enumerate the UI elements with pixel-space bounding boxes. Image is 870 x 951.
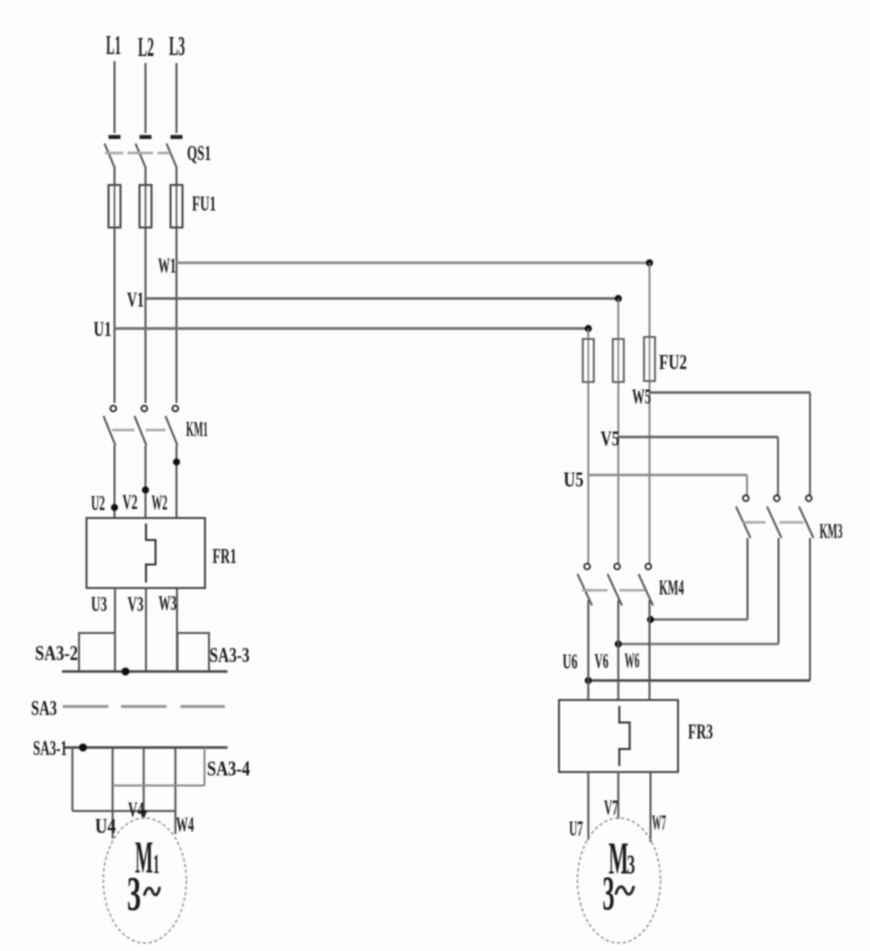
svg-text:W7: W7 (652, 811, 666, 835)
junction dot on V6 (615, 640, 622, 647)
svg-text:FU2: FU2 (659, 350, 687, 374)
svg-text:FU1: FU1 (192, 192, 216, 216)
wire L1 drop (114, 61, 116, 133)
wire KM3 pole1 to W6 (651, 618, 748, 620)
svg-text:V7: V7 (604, 796, 618, 820)
switch section SA3-4 bracket vertical (204, 748, 206, 786)
wire V5 horizontal (618, 436, 778, 438)
switch section SA3-3 box (178, 633, 210, 672)
junction dot V2 (142, 486, 149, 493)
svg-text:U4: U4 (95, 814, 116, 838)
wire W3 (176, 588, 178, 672)
svg-text:W3: W3 (159, 591, 177, 615)
svg-text:W4: W4 (176, 813, 194, 837)
svg-text:V5: V5 (601, 427, 620, 451)
fuse FU1 pole3 (171, 185, 183, 228)
wire KM1 pole1 to FR1 (114, 446, 116, 519)
wire V3 (145, 588, 147, 672)
junction dot U2 (111, 504, 118, 511)
thermal relay FR1 box (87, 518, 206, 588)
svg-text:FR3: FR3 (688, 720, 713, 744)
wire KM3 pole2 down (778, 538, 780, 644)
wire column U drop (587, 329, 589, 564)
switch section SA3-2 box (79, 633, 115, 672)
svg-text:SA3-4: SA3-4 (207, 757, 250, 781)
wire column V drop (617, 299, 619, 564)
svg-text:U7: U7 (569, 817, 583, 841)
wire W7 (650, 772, 652, 842)
wire L2 drop (145, 63, 147, 133)
contactor KM3 (736, 495, 814, 538)
contactor KM4 (578, 564, 654, 606)
fuse FU2 pole W (644, 337, 655, 381)
wire KM4 pole3 to FR3 (649, 600, 651, 700)
svg-text:FR1: FR1 (213, 544, 237, 568)
wire KM3 pole3 to U6 (588, 679, 810, 681)
svg-text:KM1: KM1 (186, 417, 208, 441)
svg-text:U6: U6 (563, 650, 578, 674)
switch QS1 (105, 137, 183, 169)
wire V4 drop with arrow (143, 748, 145, 813)
svg-text:U1: U1 (94, 317, 112, 341)
switch SA3 linkage dashes (63, 705, 225, 708)
junction dot W1 right (646, 259, 653, 266)
wire KM1 pole2 to FR1 (145, 446, 147, 519)
wire left bracket vertical (71, 748, 73, 812)
junction dot on common bus (122, 668, 130, 676)
svg-text:V2: V2 (123, 490, 138, 514)
junction dot W2 (173, 458, 180, 465)
wire V5 to KM3 pole2 (777, 437, 779, 496)
svg-text:L2: L2 (138, 32, 154, 62)
svg-text:SA3-1: SA3-1 (33, 736, 67, 760)
svg-text:KM3: KM3 (820, 519, 843, 543)
wire left bracket horizontal (72, 810, 175, 812)
junction dot V1 right (615, 295, 622, 302)
wire column W drop (649, 263, 651, 564)
wire U4 drop (112, 748, 114, 839)
svg-text:SA3-3: SA3-3 (210, 643, 250, 667)
wire QS1 to FU1 pole2 (145, 169, 147, 404)
svg-text:U3: U3 (91, 592, 107, 616)
fuse FU2 pole V (613, 339, 624, 382)
wire U3 (114, 588, 116, 672)
thermal relay FR3 heater element (619, 706, 629, 766)
svg-text:W1: W1 (158, 254, 176, 278)
svg-text:L3: L3 (169, 31, 185, 61)
wire KM3 pole3 down (809, 538, 811, 681)
wire U1 horizontal (115, 327, 589, 330)
svg-text:SA3: SA3 (31, 696, 57, 720)
svg-text:3: 3 (627, 850, 635, 880)
wire V7 (617, 772, 619, 819)
wire KM1 pole3 to FR1 (176, 446, 178, 519)
fuse FU2 pole U (583, 339, 594, 382)
contactor KM1 (104, 406, 179, 446)
wire KM3 pole2 to V6 (618, 643, 778, 645)
wire U5 horizontal (588, 474, 747, 476)
svg-text:V3: V3 (128, 592, 144, 616)
svg-text:3: 3 (127, 866, 141, 921)
wire KM4 pole2 to FR3 (617, 600, 619, 700)
junction dot on W6 (647, 616, 654, 623)
fuse FU1 pole1 (109, 185, 121, 228)
wire KM4 pole1 to FR3 (587, 600, 589, 700)
svg-text:L1: L1 (106, 30, 121, 60)
junction dot SA3-1 (79, 744, 87, 752)
svg-text:1: 1 (153, 849, 160, 879)
junction dot on U6 (585, 677, 592, 684)
svg-text:KM4: KM4 (659, 576, 684, 600)
svg-text:U2: U2 (91, 491, 105, 515)
switch section SA3-4 bracket horizontal (113, 785, 205, 787)
svg-text:SA3-2: SA3-2 (35, 641, 78, 665)
svg-text:QS1: QS1 (187, 141, 211, 165)
svg-text:V1: V1 (127, 288, 144, 312)
thermal relay FR1 heater element (146, 524, 156, 583)
wire U7 (587, 772, 589, 840)
svg-text:U5: U5 (564, 468, 584, 492)
svg-text:3: 3 (603, 866, 615, 921)
wire W1 horizontal (177, 261, 650, 264)
motor M3 circle (578, 818, 661, 943)
wire common bus under SA3-2/SA3-3 (62, 670, 228, 673)
svg-text:W2: W2 (152, 491, 168, 515)
svg-text:V6: V6 (595, 649, 609, 673)
thermal relay FR3 box (559, 700, 678, 772)
junction dot U1 right (585, 325, 592, 332)
wire U5 to KM3 pole1 (746, 475, 748, 496)
wire KM3 pole1 down (747, 538, 749, 620)
wire W5 to KM3 pole3 (809, 393, 811, 496)
svg-text:W5: W5 (632, 385, 651, 409)
wire L3 drop (176, 63, 178, 133)
wire SA3-1 bus (64, 746, 228, 749)
motor M1 circle (103, 818, 186, 943)
wire QS1 to FU1 pole3 (176, 169, 178, 404)
wire W5 horizontal (650, 391, 811, 393)
wire V1 horizontal (146, 297, 619, 300)
wire W4 drop (174, 748, 176, 835)
svg-text:W6: W6 (625, 649, 640, 673)
wire QS1 to FU1 pole1 (114, 169, 116, 404)
fuse FU1 pole2 (140, 185, 152, 228)
